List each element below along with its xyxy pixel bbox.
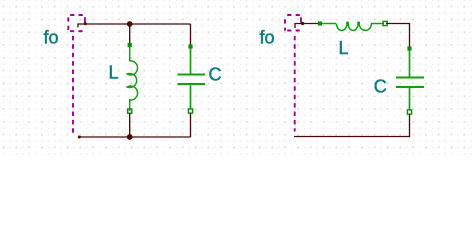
node (wire endpoint dot) bbox=[84, 22, 87, 25]
inductor L2 (horizontal) bbox=[321, 22, 384, 30]
probe box (left, dashed magenta) bbox=[68, 15, 85, 31]
node (wire endpoint dot, bottom left) bbox=[78, 136, 81, 139]
wire (L branch top, maroon) bbox=[129, 24, 131, 44]
inductor L1 (vertical) bbox=[127, 46, 137, 111]
svg-text:fo: fo bbox=[260, 28, 275, 48]
svg-text:C: C bbox=[209, 65, 222, 85]
capacitor C2 (vertical, right circuit) bbox=[396, 50, 424, 110]
svg-text:L: L bbox=[109, 63, 119, 83]
wire (left top rail) bbox=[85, 23, 191, 25]
wire (right probe hook) bbox=[295, 24, 302, 29]
wire (left bottom rail) bbox=[79, 136, 191, 138]
node junction (top of L branch) bbox=[127, 21, 133, 27]
wire (C branch bottom, maroon) bbox=[190, 113, 192, 137]
wire (right side bottom + bottom rail) bbox=[294, 114, 410, 137]
pin (L1 top) bbox=[128, 43, 132, 47]
wire (left dashed vertical) bbox=[72, 36, 74, 133]
pin (L2 right) bbox=[383, 21, 387, 25]
probe box (right, dashed magenta) bbox=[285, 15, 301, 31]
node junction (bottom of L branch) bbox=[127, 134, 133, 140]
pin (C1 top) bbox=[188, 44, 192, 48]
pin (C2 bottom) bbox=[407, 110, 411, 114]
pin (L2 left) bbox=[318, 21, 322, 25]
svg-text:C: C bbox=[374, 77, 387, 97]
pin (C1 bottom) bbox=[188, 109, 192, 113]
wire (right dashed vertical) bbox=[294, 36, 296, 132]
wire (C branch top, maroon) bbox=[190, 24, 192, 45]
pin (C2 top) bbox=[407, 46, 411, 50]
svg-text:L: L bbox=[339, 38, 349, 58]
wire (right top rail, left part) bbox=[302, 23, 319, 25]
wire (L branch bottom, maroon) bbox=[129, 113, 131, 137]
svg-text:fo: fo bbox=[44, 28, 59, 48]
wire (left probe hook) bbox=[78, 24, 85, 27]
node (wire endpoint dot, right circuit) bbox=[301, 22, 304, 25]
wire (right top rail, right part + right side down) bbox=[386, 24, 410, 47]
pin (L1 bottom) bbox=[128, 109, 132, 113]
capacitor C1 (vertical) bbox=[178, 48, 206, 109]
